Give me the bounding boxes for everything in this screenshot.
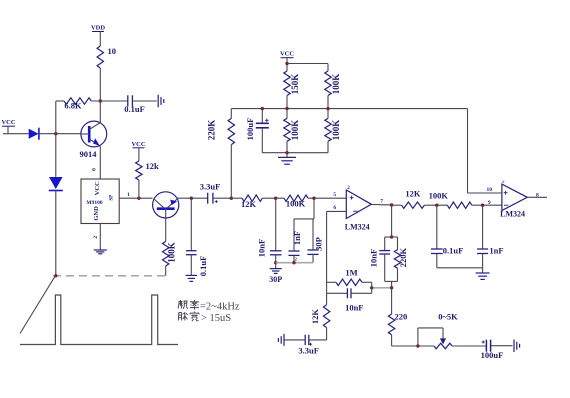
svg-text:100K: 100K <box>331 74 341 95</box>
transistor Q1 9014 <box>80 121 107 159</box>
wire C1 to ground <box>132 100 156 102</box>
resistor 100K upper-right <box>325 71 341 96</box>
pin 0 label <box>92 168 98 171</box>
svg-text:9014: 9014 <box>80 149 98 159</box>
svg-text:=2~4kHz: =2~4kHz <box>200 302 240 313</box>
diode D2 <box>49 177 63 191</box>
svg-text:2: 2 <box>295 257 298 262</box>
capacitor 10nF shunt <box>257 198 282 268</box>
wire opamp2 out <box>527 196 547 198</box>
wire Q2 base down <box>165 218 167 241</box>
svg-text:220: 220 <box>395 312 408 322</box>
node 0.1uF junction <box>435 204 438 207</box>
wire out1 run <box>392 204 402 206</box>
svg-text:5: 5 <box>333 192 336 198</box>
ground under 0.1uF Q2 <box>186 275 198 281</box>
text 频率=2~4kHz <box>178 300 240 313</box>
wire to C1 <box>91 100 128 102</box>
svg-text:30P: 30P <box>314 237 324 251</box>
capacitor 10nF parallel <box>327 282 372 312</box>
IC U1 M9100 <box>81 179 119 224</box>
wire divider bottom <box>262 152 328 154</box>
resistor 100K Q2 base <box>163 241 177 266</box>
ground out caps <box>476 268 490 280</box>
node emitter junction <box>190 197 193 200</box>
power VCC left <box>1 119 28 134</box>
svg-text:VCC: VCC <box>131 141 145 148</box>
wire opamp1 minus <box>327 210 347 212</box>
svg-text:100K: 100K <box>331 120 341 141</box>
svg-text:0.1uF: 0.1uF <box>443 245 464 255</box>
wire left vertical <box>55 101 57 177</box>
power VCC Q2 <box>131 141 145 161</box>
resistor 12K series <box>241 195 262 209</box>
wire gray cap bottoms <box>276 262 313 264</box>
resistor 150K <box>284 71 300 96</box>
resistor 100K lower-right <box>325 109 341 153</box>
wire gray fb <box>372 287 392 289</box>
capacitor 3.3uF bottom <box>285 335 327 356</box>
wire 3.3uF to 220K node <box>213 197 231 199</box>
wire pot to 100uF <box>452 345 486 347</box>
wire IC pin1 <box>119 192 152 198</box>
wire 100K to mid <box>327 96 329 109</box>
wire 220 to rail <box>391 335 393 346</box>
wire opamp1 minus down <box>326 211 328 282</box>
svg-text:2: 2 <box>347 186 350 191</box>
svg-text:GND: GND <box>93 206 100 221</box>
wire mid rail <box>231 108 467 110</box>
node 1nF junction <box>312 197 315 200</box>
capacitor 0.1uF out <box>431 205 463 268</box>
node 220K junction <box>230 197 233 200</box>
svg-text:1M: 1M <box>345 267 357 277</box>
wire IC pin2 <box>93 224 101 250</box>
node 1nF out junction <box>481 204 484 207</box>
svg-text:SP: SP <box>110 195 115 201</box>
wire collector Q1 <box>99 101 101 123</box>
svg-text:12k: 12k <box>146 161 160 171</box>
svg-text:7: 7 <box>380 198 383 204</box>
svg-text:VCC: VCC <box>1 119 15 126</box>
node VCC junction <box>285 62 288 65</box>
wire 100K to rail <box>165 266 167 276</box>
svg-text:M9100: M9100 <box>86 200 102 206</box>
wire out cap bottoms <box>437 267 483 269</box>
svg-text:3.3uF: 3.3uF <box>298 346 319 356</box>
label 30P under ground <box>269 275 282 284</box>
svg-text:LM324: LM324 <box>500 210 525 219</box>
capacitor 1nF out <box>477 205 504 268</box>
svg-text:VDD: VDD <box>91 25 105 32</box>
svg-text:10: 10 <box>108 46 117 56</box>
svg-text:0~5K: 0~5K <box>438 312 458 322</box>
wire fb top <box>385 236 398 238</box>
svg-text:VCC: VCC <box>280 51 294 58</box>
power VCC divider <box>280 51 294 72</box>
svg-text:100K: 100K <box>290 120 300 141</box>
wire 100K to opamp <box>308 197 346 199</box>
node rail junction <box>54 274 57 277</box>
resistor 12k vertical <box>136 161 159 180</box>
svg-text:10nF: 10nF <box>257 239 267 257</box>
wire node to 12K <box>231 197 242 199</box>
svg-text:6.8K: 6.8K <box>64 101 82 111</box>
node pot junction <box>416 344 419 347</box>
resistor R-10 value 10 <box>97 46 116 68</box>
svg-text:0: 0 <box>92 168 98 171</box>
resistor 100K series <box>284 195 308 209</box>
svg-text:220K: 220K <box>207 120 217 141</box>
wire 1nF drop <box>294 198 314 219</box>
transistor Q2 <box>153 192 179 218</box>
svg-text:1: 1 <box>127 192 130 198</box>
node bottom junction <box>285 151 288 154</box>
wire bottom rail <box>392 345 434 347</box>
svg-text:30P: 30P <box>269 275 282 284</box>
wire 100uF to ground <box>491 345 513 347</box>
capacitor 10nF feedback <box>369 237 391 281</box>
wire 12k to node <box>138 180 140 198</box>
capacitor 100uF output <box>481 340 504 360</box>
svg-text:> 15uS: > 15uS <box>201 313 231 324</box>
node fb top <box>390 235 393 238</box>
svg-text:100K: 100K <box>429 190 449 200</box>
svg-text:12K: 12K <box>241 199 257 209</box>
svg-text:c: c <box>502 180 505 185</box>
resistor 220K feedback <box>394 237 408 281</box>
svg-text:100K: 100K <box>286 199 306 209</box>
op-amp U2A LM324 <box>333 186 383 231</box>
wire fb to 220 <box>391 288 393 314</box>
svg-text:100uF: 100uF <box>245 118 255 141</box>
svg-text:0.1uF: 0.1uF <box>124 104 145 114</box>
wire 100K to opamp2 <box>472 204 502 206</box>
resistor 220 <box>388 312 407 335</box>
wire 220K down <box>230 145 232 199</box>
svg-text:150K: 150K <box>290 74 300 95</box>
svg-text:100K: 100K <box>167 242 177 263</box>
node pin1 junction <box>137 197 140 200</box>
ground left-facing 3.3uF <box>278 334 284 346</box>
capacitor 100uF divider <box>245 109 269 153</box>
wiper arrow <box>440 338 446 344</box>
wire 150K to mid <box>286 96 288 109</box>
svg-text:1nF: 1nF <box>292 231 302 245</box>
capacitor C1 0.1uF <box>124 95 145 114</box>
node A junction <box>99 99 102 102</box>
waveform pulses <box>20 295 178 345</box>
svg-text:220K: 220K <box>398 247 408 267</box>
node 1nF bottom <box>292 261 295 264</box>
ground IC <box>94 250 107 254</box>
wire diagonal <box>20 276 55 333</box>
svg-text:12K: 12K <box>405 189 421 199</box>
wire fb bottom <box>385 281 398 287</box>
wire D2 to rail <box>55 191 57 276</box>
capacitor 3.3uF coupling <box>200 182 221 204</box>
node 10nF junction <box>274 197 277 200</box>
wire D1 to Q1 base <box>39 133 81 135</box>
capacitor 0.1uF Q2 <box>186 198 208 276</box>
capacitor 30P shunt <box>307 219 323 263</box>
svg-text:1nF: 1nF <box>489 246 503 256</box>
svg-text:10: 10 <box>487 187 493 193</box>
wire divider top <box>287 64 328 72</box>
svg-text:LM324: LM324 <box>345 222 370 231</box>
svg-text:100uF: 100uF <box>481 350 504 360</box>
resistor 12K bottom <box>310 293 330 340</box>
potentiometer 0~5K <box>434 312 458 349</box>
resistor 220K input <box>207 109 235 145</box>
wire VDD column <box>99 68 101 101</box>
node base junction <box>54 132 57 135</box>
wire emitter Q1 to IC <box>99 147 101 179</box>
svg-text:6: 6 <box>333 205 336 211</box>
svg-text:VCC: VCC <box>94 181 101 195</box>
wire opamp1 out <box>371 204 391 206</box>
diode D1 <box>29 128 39 140</box>
power VDD <box>91 25 105 47</box>
resistor 100K lower-left <box>284 109 300 153</box>
ground right-facing output <box>514 339 520 352</box>
wire gray rail <box>53 275 167 277</box>
wire reference line <box>468 109 502 193</box>
capacitor 1nF shunt <box>288 219 302 263</box>
svg-text:0.1uF: 0.1uF <box>198 256 208 277</box>
node fb junctions <box>370 286 393 289</box>
resistor 6.8K <box>56 98 91 111</box>
svg-text:10nF: 10nF <box>369 249 379 267</box>
svg-text:10nF: 10nF <box>345 303 363 313</box>
node mid junctions <box>261 107 330 110</box>
svg-text:3.3uF: 3.3uF <box>200 182 221 192</box>
text 脉宽>15uS <box>178 312 231 325</box>
svg-text:9: 9 <box>488 200 491 206</box>
resistor 100K out <box>429 190 472 208</box>
svg-text:2: 2 <box>93 236 99 239</box>
ground divider <box>278 153 296 165</box>
resistor 12K out <box>402 189 425 209</box>
resistor 1M <box>327 267 372 285</box>
wire 12K-100K <box>424 204 447 206</box>
wire out1 down <box>391 205 393 237</box>
wiper loop <box>418 328 443 346</box>
wire 12K to 100K <box>262 197 284 199</box>
wire Q2 emitter <box>178 197 208 199</box>
node out1 junction <box>390 203 393 206</box>
ground right-facing top-left <box>158 95 164 108</box>
node gray junction <box>274 261 277 264</box>
svg-text:12K: 12K <box>310 309 320 325</box>
ground under 10nF <box>270 269 282 274</box>
op-amp U2B LM324 <box>487 180 539 218</box>
